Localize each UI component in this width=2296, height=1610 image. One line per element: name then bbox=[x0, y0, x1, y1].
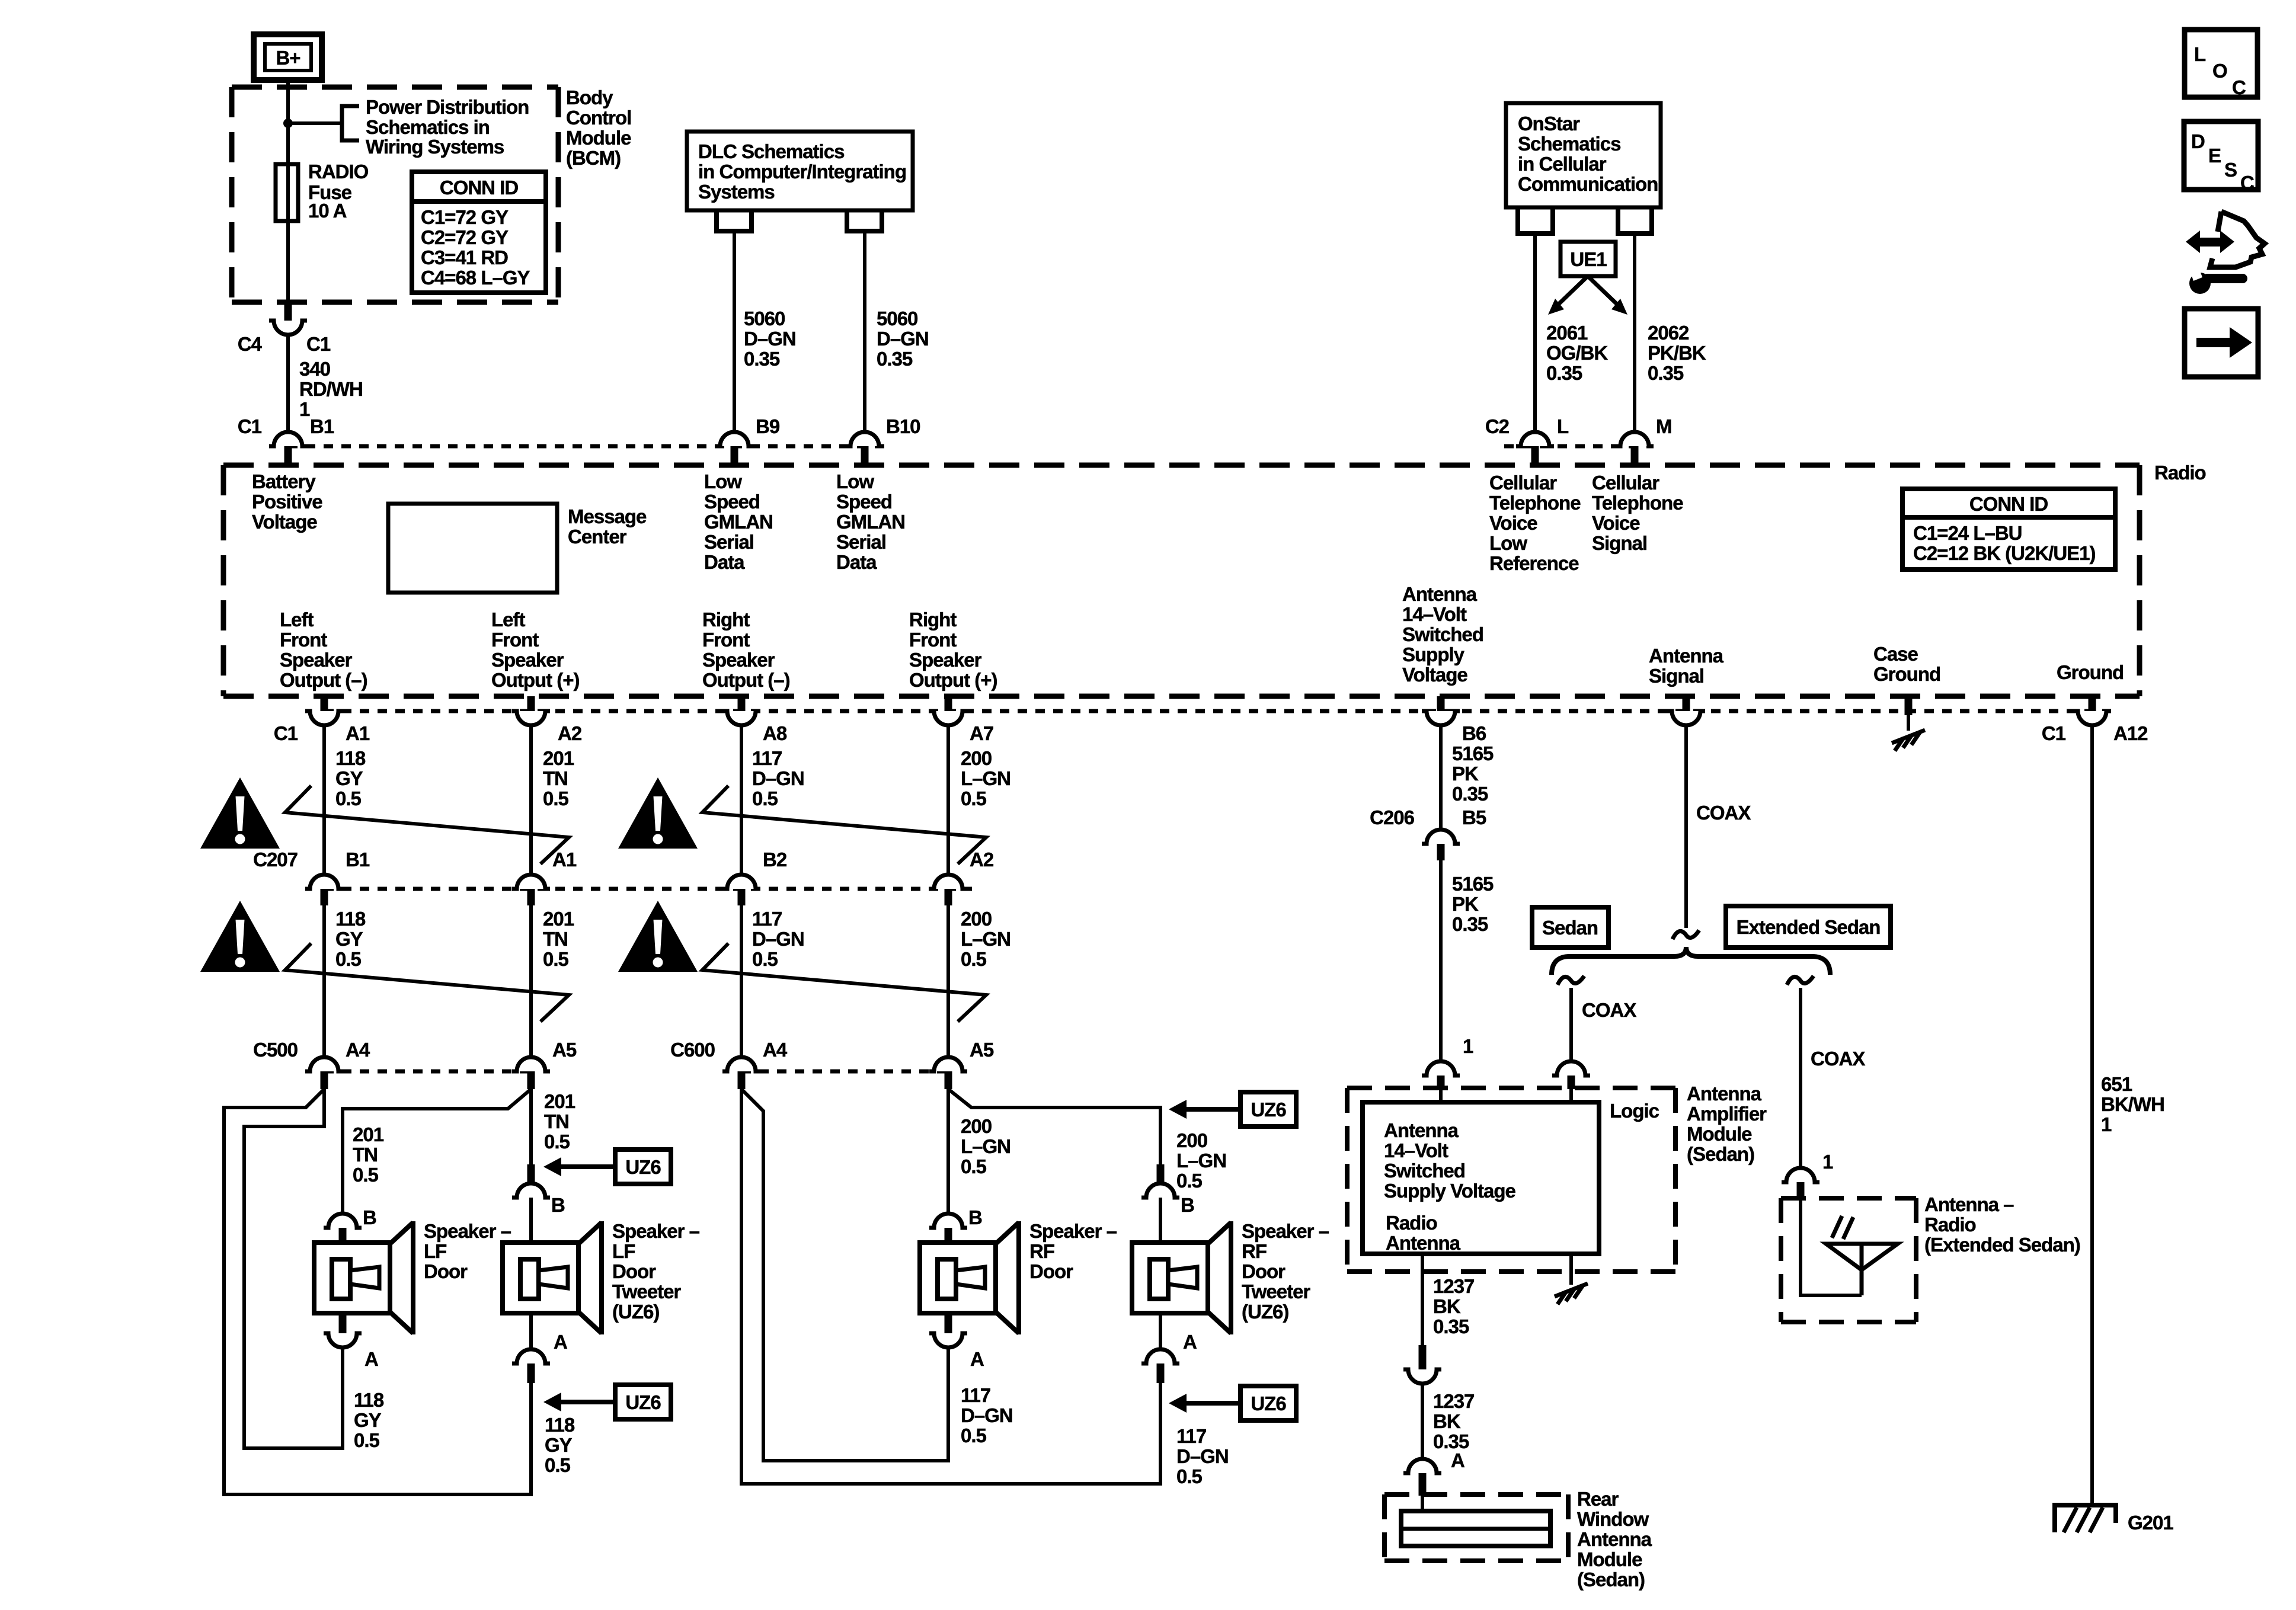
svg-text:D–GN: D–GN bbox=[752, 767, 804, 789]
svg-text:PK/BK: PK/BK bbox=[1648, 342, 1706, 364]
svg-text:C2: C2 bbox=[1485, 415, 1510, 437]
svg-text:0.5: 0.5 bbox=[752, 788, 778, 809]
svg-text:0.5: 0.5 bbox=[961, 948, 987, 970]
svg-text:A: A bbox=[970, 1348, 984, 1370]
svg-text:0.5: 0.5 bbox=[961, 1425, 987, 1446]
svg-text:C500: C500 bbox=[253, 1039, 298, 1061]
svg-text:Low: Low bbox=[836, 470, 874, 492]
svg-text:0.5: 0.5 bbox=[543, 788, 569, 809]
svg-text:B5: B5 bbox=[1462, 806, 1486, 828]
svg-text:B1: B1 bbox=[310, 415, 334, 437]
svg-text:B9: B9 bbox=[756, 415, 780, 437]
svg-text:L–GN: L–GN bbox=[961, 1135, 1011, 1157]
svg-text:B6: B6 bbox=[1462, 722, 1486, 744]
svg-text:200: 200 bbox=[1176, 1129, 1207, 1151]
svg-text:5060: 5060 bbox=[877, 308, 917, 329]
svg-text:14–Volt: 14–Volt bbox=[1384, 1140, 1448, 1161]
svg-text:RADIO: RADIO bbox=[308, 161, 369, 183]
svg-text:Antenna: Antenna bbox=[1384, 1119, 1459, 1141]
svg-text:A7: A7 bbox=[970, 722, 993, 744]
svg-text:Door: Door bbox=[1029, 1260, 1073, 1282]
svg-text:B: B bbox=[1181, 1194, 1194, 1216]
svg-text:2062: 2062 bbox=[1648, 322, 1689, 344]
svg-text:118: 118 bbox=[545, 1414, 575, 1436]
svg-text:0.5: 0.5 bbox=[543, 948, 569, 970]
svg-text:Left: Left bbox=[491, 609, 526, 630]
svg-text:Body: Body bbox=[566, 87, 613, 108]
svg-text:A: A bbox=[1451, 1449, 1464, 1471]
svg-text:D–GN: D–GN bbox=[752, 928, 804, 950]
svg-text:Case: Case bbox=[1873, 643, 1918, 665]
svg-text:Reference: Reference bbox=[1489, 552, 1579, 574]
svg-text:C: C bbox=[2240, 172, 2254, 194]
svg-text:Antenna: Antenna bbox=[1577, 1528, 1652, 1550]
svg-text:0.35: 0.35 bbox=[1546, 362, 1582, 384]
svg-text:Speaker –: Speaker – bbox=[424, 1220, 511, 1242]
svg-text:Schematics: Schematics bbox=[1518, 133, 1620, 155]
svg-text:Output (+): Output (+) bbox=[491, 669, 580, 691]
svg-text:200: 200 bbox=[961, 747, 992, 769]
svg-text:Systems: Systems bbox=[698, 181, 775, 203]
svg-text:Right: Right bbox=[702, 609, 750, 630]
svg-text:Cellular: Cellular bbox=[1489, 472, 1557, 494]
svg-text:COAX: COAX bbox=[1582, 999, 1636, 1021]
svg-text:COAX: COAX bbox=[1696, 802, 1751, 824]
svg-text:Door: Door bbox=[1242, 1260, 1285, 1282]
svg-text:Serial: Serial bbox=[704, 531, 754, 553]
svg-text:0.5: 0.5 bbox=[752, 948, 778, 970]
svg-text:Supply Voltage: Supply Voltage bbox=[1384, 1180, 1516, 1202]
svg-text:C2=12 BK (U2K/UE1): C2=12 BK (U2K/UE1) bbox=[1913, 542, 2096, 564]
svg-text:Speaker: Speaker bbox=[909, 649, 982, 671]
svg-text:C: C bbox=[2232, 76, 2246, 98]
svg-text:Telephone: Telephone bbox=[1489, 492, 1581, 514]
svg-text:A: A bbox=[1183, 1331, 1197, 1353]
svg-text:0.35: 0.35 bbox=[1452, 783, 1488, 805]
svg-text:Front: Front bbox=[909, 629, 957, 651]
svg-text:A8: A8 bbox=[763, 722, 787, 744]
svg-text:0.5: 0.5 bbox=[335, 788, 362, 809]
svg-text:OnStar: OnStar bbox=[1518, 113, 1580, 135]
svg-text:Telephone: Telephone bbox=[1592, 492, 1683, 514]
svg-text:GMLAN: GMLAN bbox=[704, 511, 773, 533]
svg-text:TN: TN bbox=[543, 767, 568, 789]
svg-text:D–GN: D–GN bbox=[744, 328, 796, 350]
svg-text:BK: BK bbox=[1433, 1410, 1461, 1432]
svg-text:Logic: Logic bbox=[1610, 1100, 1659, 1122]
svg-text:Voice: Voice bbox=[1489, 512, 1537, 534]
svg-text:C1: C1 bbox=[238, 415, 262, 437]
svg-text:A2: A2 bbox=[970, 849, 994, 870]
svg-text:D–GN: D–GN bbox=[961, 1404, 1013, 1426]
svg-text:C207: C207 bbox=[253, 849, 298, 870]
svg-text:Power Distribution: Power Distribution bbox=[366, 96, 529, 118]
svg-text:RF: RF bbox=[1242, 1240, 1267, 1262]
svg-text:Antenna: Antenna bbox=[1649, 645, 1724, 667]
svg-text:Front: Front bbox=[491, 629, 539, 651]
svg-text:Door: Door bbox=[612, 1260, 656, 1282]
svg-text:Data: Data bbox=[836, 551, 877, 573]
svg-text:GMLAN: GMLAN bbox=[836, 511, 905, 533]
svg-text:0.35: 0.35 bbox=[877, 348, 913, 370]
svg-text:Data: Data bbox=[704, 551, 745, 573]
svg-text:Voice: Voice bbox=[1592, 512, 1640, 534]
svg-text:Module: Module bbox=[1687, 1123, 1752, 1145]
svg-text:1237: 1237 bbox=[1433, 1390, 1474, 1412]
svg-text:L–GN: L–GN bbox=[961, 767, 1011, 789]
svg-text:Output (–): Output (–) bbox=[280, 669, 367, 691]
svg-text:L–GN: L–GN bbox=[961, 928, 1011, 950]
svg-text:A1: A1 bbox=[346, 722, 370, 744]
svg-text:B2: B2 bbox=[763, 849, 787, 870]
svg-text:Sedan: Sedan bbox=[1542, 917, 1598, 939]
svg-text:Rear: Rear bbox=[1577, 1488, 1619, 1510]
svg-text:O: O bbox=[2212, 60, 2227, 82]
svg-text:0.5: 0.5 bbox=[1176, 1465, 1203, 1487]
svg-text:Voltage: Voltage bbox=[1402, 664, 1467, 686]
svg-text:5165: 5165 bbox=[1452, 873, 1494, 895]
svg-text:201: 201 bbox=[543, 747, 574, 769]
svg-text:A5: A5 bbox=[970, 1039, 994, 1061]
svg-text:COAX: COAX bbox=[1811, 1048, 1865, 1070]
svg-text:0.5: 0.5 bbox=[961, 788, 987, 809]
svg-text:0.5: 0.5 bbox=[353, 1164, 379, 1186]
svg-text:A4: A4 bbox=[346, 1039, 370, 1061]
svg-text:Antenna: Antenna bbox=[1402, 583, 1478, 605]
svg-text:201: 201 bbox=[543, 908, 574, 930]
svg-text:BK/WH: BK/WH bbox=[2101, 1093, 2164, 1115]
svg-text:Positive: Positive bbox=[252, 491, 322, 513]
svg-text:Tweeter: Tweeter bbox=[1242, 1281, 1310, 1302]
svg-text:Voltage: Voltage bbox=[252, 511, 317, 533]
svg-text:D: D bbox=[2191, 130, 2205, 152]
svg-text:Speaker: Speaker bbox=[491, 649, 564, 671]
svg-text:TN: TN bbox=[544, 1110, 569, 1132]
svg-text:Module: Module bbox=[1577, 1548, 1642, 1570]
svg-text:Radio: Radio bbox=[1386, 1212, 1437, 1234]
svg-text:Amplifier: Amplifier bbox=[1687, 1103, 1767, 1125]
svg-text:LF: LF bbox=[612, 1240, 635, 1262]
svg-text:Switched: Switched bbox=[1384, 1160, 1465, 1182]
svg-text:C4=68 L–GY: C4=68 L–GY bbox=[421, 267, 530, 289]
svg-text:Signal: Signal bbox=[1649, 665, 1704, 687]
svg-text:(Sedan): (Sedan) bbox=[1577, 1569, 1645, 1590]
svg-text:(Extended Sedan): (Extended Sedan) bbox=[1924, 1234, 2080, 1256]
svg-text:GY: GY bbox=[335, 928, 363, 950]
svg-text:Tweeter: Tweeter bbox=[612, 1281, 681, 1302]
svg-text:651: 651 bbox=[2101, 1073, 2132, 1095]
svg-text:Switched: Switched bbox=[1402, 623, 1483, 645]
svg-text:201: 201 bbox=[353, 1124, 384, 1145]
svg-text:B: B bbox=[968, 1206, 982, 1228]
svg-text:in Computer/Integrating: in Computer/Integrating bbox=[698, 161, 906, 183]
svg-text:L: L bbox=[2194, 43, 2206, 65]
svg-text:C3=41 RD: C3=41 RD bbox=[421, 247, 508, 268]
svg-text:C206: C206 bbox=[1370, 806, 1415, 828]
svg-text:Front: Front bbox=[280, 629, 327, 651]
svg-text:200: 200 bbox=[961, 1115, 992, 1137]
svg-text:1: 1 bbox=[1463, 1035, 1473, 1057]
svg-text:CONN ID: CONN ID bbox=[440, 177, 519, 199]
svg-text:Output (–): Output (–) bbox=[702, 669, 790, 691]
svg-text:BK: BK bbox=[1433, 1295, 1461, 1317]
svg-text:Ground: Ground bbox=[1873, 663, 1940, 685]
svg-text:0.5: 0.5 bbox=[544, 1131, 570, 1153]
svg-text:S: S bbox=[2224, 159, 2237, 181]
svg-text:Speaker –: Speaker – bbox=[612, 1220, 700, 1242]
svg-text:B10: B10 bbox=[886, 415, 920, 437]
svg-text:Serial: Serial bbox=[836, 531, 886, 553]
svg-text:Ground: Ground bbox=[2057, 661, 2124, 683]
svg-text:G201: G201 bbox=[2128, 1512, 2173, 1534]
svg-text:Antenna: Antenna bbox=[1386, 1232, 1461, 1254]
svg-text:Front: Front bbox=[702, 629, 750, 651]
svg-text:340: 340 bbox=[299, 358, 330, 380]
svg-text:A2: A2 bbox=[558, 722, 582, 744]
svg-text:B: B bbox=[551, 1194, 565, 1216]
svg-text:in Cellular: in Cellular bbox=[1518, 153, 1607, 175]
svg-text:PK: PK bbox=[1452, 763, 1479, 785]
svg-text:C4: C4 bbox=[238, 333, 263, 355]
svg-text:2061: 2061 bbox=[1546, 322, 1588, 344]
svg-text:TN: TN bbox=[353, 1144, 378, 1166]
svg-text:C1: C1 bbox=[306, 333, 331, 355]
svg-text:DLC Schematics: DLC Schematics bbox=[698, 140, 844, 162]
svg-text:201: 201 bbox=[544, 1090, 575, 1112]
svg-text:OG/BK: OG/BK bbox=[1546, 342, 1608, 364]
svg-text:L–GN: L–GN bbox=[1176, 1150, 1226, 1172]
svg-text:Left: Left bbox=[280, 609, 314, 630]
svg-text:GY: GY bbox=[545, 1434, 573, 1456]
svg-text:Window: Window bbox=[1577, 1508, 1649, 1530]
svg-text:0.35: 0.35 bbox=[744, 348, 780, 370]
svg-text:Control: Control bbox=[566, 107, 631, 129]
svg-text:200: 200 bbox=[961, 908, 992, 930]
svg-text:A4: A4 bbox=[763, 1039, 788, 1061]
svg-text:0.5: 0.5 bbox=[545, 1454, 571, 1476]
svg-text:Supply: Supply bbox=[1402, 644, 1465, 665]
svg-text:0.5: 0.5 bbox=[354, 1429, 380, 1451]
svg-text:Antenna: Antenna bbox=[1687, 1083, 1762, 1105]
svg-text:C1: C1 bbox=[274, 722, 298, 744]
svg-text:Battery: Battery bbox=[252, 470, 316, 492]
svg-text:GY: GY bbox=[335, 767, 363, 789]
svg-text:(UZ6): (UZ6) bbox=[612, 1301, 659, 1323]
svg-text:Output (+): Output (+) bbox=[909, 669, 997, 691]
svg-text:E: E bbox=[2208, 145, 2221, 167]
svg-text:0.35: 0.35 bbox=[1452, 913, 1488, 935]
svg-text:LF: LF bbox=[424, 1240, 446, 1262]
svg-text:GY: GY bbox=[354, 1409, 382, 1431]
svg-text:Speed: Speed bbox=[836, 491, 892, 513]
svg-text:117: 117 bbox=[1176, 1425, 1206, 1447]
svg-text:Communication: Communication bbox=[1518, 173, 1658, 195]
svg-text:5165: 5165 bbox=[1452, 742, 1494, 764]
svg-text:RD/WH: RD/WH bbox=[299, 378, 363, 400]
svg-text:118: 118 bbox=[335, 747, 366, 769]
svg-text:Low: Low bbox=[1489, 532, 1527, 554]
svg-text:118: 118 bbox=[335, 908, 366, 930]
svg-text:B+: B+ bbox=[276, 47, 300, 69]
svg-text:TN: TN bbox=[543, 928, 568, 950]
svg-text:0.5: 0.5 bbox=[335, 948, 362, 970]
svg-text:RF: RF bbox=[1029, 1240, 1054, 1262]
svg-text:Cellular: Cellular bbox=[1592, 472, 1659, 494]
svg-text:Radio: Radio bbox=[1924, 1214, 1976, 1235]
svg-text:UE1: UE1 bbox=[1570, 248, 1607, 270]
svg-text:B: B bbox=[363, 1206, 376, 1228]
svg-text:(Sedan): (Sedan) bbox=[1687, 1143, 1754, 1165]
svg-text:Wiring Systems: Wiring Systems bbox=[366, 136, 504, 158]
svg-text:0.5: 0.5 bbox=[1176, 1170, 1203, 1192]
svg-text:Module: Module bbox=[566, 127, 631, 149]
svg-text:117: 117 bbox=[752, 908, 782, 930]
svg-text:Radio: Radio bbox=[2154, 462, 2206, 484]
svg-text:1: 1 bbox=[299, 398, 310, 420]
svg-text:Right: Right bbox=[909, 609, 957, 630]
svg-text:117: 117 bbox=[752, 747, 782, 769]
svg-text:L: L bbox=[1557, 415, 1569, 437]
svg-text:Antenna –: Antenna – bbox=[1924, 1193, 2014, 1215]
svg-text:B1: B1 bbox=[346, 849, 370, 870]
svg-text:Extended Sedan: Extended Sedan bbox=[1737, 916, 1881, 938]
svg-text:A: A bbox=[554, 1331, 567, 1353]
svg-text:Speaker –: Speaker – bbox=[1029, 1220, 1117, 1242]
svg-text:C1: C1 bbox=[2042, 722, 2066, 744]
svg-text:D–GN: D–GN bbox=[877, 328, 929, 350]
svg-text:Center: Center bbox=[568, 526, 627, 548]
svg-text:1: 1 bbox=[1822, 1151, 1833, 1173]
svg-text:A1: A1 bbox=[552, 849, 577, 870]
svg-text:0.35: 0.35 bbox=[1433, 1315, 1469, 1337]
svg-text:14–Volt: 14–Volt bbox=[1402, 603, 1467, 625]
svg-text:0.35: 0.35 bbox=[1648, 362, 1684, 384]
svg-text:Speaker –: Speaker – bbox=[1242, 1220, 1329, 1242]
svg-text:Schematics in: Schematics in bbox=[366, 116, 490, 138]
svg-text:117: 117 bbox=[961, 1384, 990, 1406]
svg-text:CONN ID: CONN ID bbox=[1969, 493, 2048, 515]
svg-text:C1=24 L–BU: C1=24 L–BU bbox=[1913, 522, 2022, 544]
svg-text:Message: Message bbox=[568, 505, 647, 527]
svg-text:1: 1 bbox=[2101, 1113, 2112, 1135]
svg-text:A12: A12 bbox=[2113, 722, 2148, 744]
svg-text:Speed: Speed bbox=[704, 491, 760, 513]
svg-text:10 A: 10 A bbox=[308, 200, 347, 222]
svg-text:A5: A5 bbox=[552, 1039, 577, 1061]
svg-text:1237: 1237 bbox=[1433, 1275, 1474, 1297]
svg-text:Door: Door bbox=[424, 1260, 468, 1282]
svg-text:M: M bbox=[1656, 415, 1672, 437]
svg-text:PK: PK bbox=[1452, 893, 1479, 915]
svg-text:Speaker: Speaker bbox=[702, 649, 775, 671]
svg-text:118: 118 bbox=[354, 1389, 384, 1411]
svg-text:A: A bbox=[364, 1348, 378, 1370]
svg-text:C1=72 GY: C1=72 GY bbox=[421, 206, 509, 228]
svg-text:(UZ6): (UZ6) bbox=[1242, 1301, 1288, 1323]
svg-text:(BCM): (BCM) bbox=[566, 147, 621, 169]
svg-text:0.5: 0.5 bbox=[961, 1156, 987, 1177]
svg-text:Speaker: Speaker bbox=[280, 649, 353, 671]
svg-text:Low: Low bbox=[704, 470, 742, 492]
svg-text:5060: 5060 bbox=[744, 308, 785, 329]
svg-text:D–GN: D–GN bbox=[1176, 1445, 1229, 1467]
svg-text:C600: C600 bbox=[670, 1039, 715, 1061]
svg-text:Signal: Signal bbox=[1592, 532, 1647, 554]
svg-text:C2=72 GY: C2=72 GY bbox=[421, 226, 509, 248]
